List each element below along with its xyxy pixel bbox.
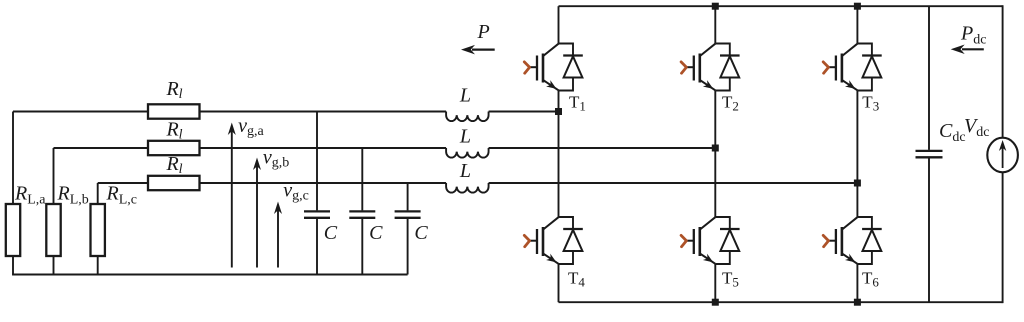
wire leg 3 upper xyxy=(856,6,858,43)
diode D5 xyxy=(715,217,739,264)
label T4 xyxy=(568,269,585,290)
label T6 xyxy=(862,269,879,290)
svg-text:RL,a: RL,a xyxy=(14,183,46,208)
junction bottom bus leg2 xyxy=(712,299,719,306)
svg-text:C: C xyxy=(324,222,338,244)
arrow P xyxy=(461,45,495,55)
svg-text:T6: T6 xyxy=(862,269,879,290)
voltage arrow vg,a xyxy=(228,123,236,268)
svg-text:C: C xyxy=(369,222,383,244)
capacitor C (phase c) xyxy=(395,183,421,275)
label Rl (phase c) xyxy=(165,153,182,177)
svg-text:C: C xyxy=(414,222,428,244)
junction top bus leg3 xyxy=(854,3,861,10)
resistor RL,c xyxy=(91,204,105,256)
svg-text:Rl: Rl xyxy=(165,153,182,177)
diode D4 xyxy=(559,217,583,264)
resistor Rl (phase b) xyxy=(148,141,200,155)
svg-text:Rl: Rl xyxy=(165,119,182,143)
label L (phase b) xyxy=(459,125,471,147)
label P xyxy=(477,21,490,43)
svg-text:P: P xyxy=(477,21,490,43)
diode D1 xyxy=(559,44,583,91)
wire L,a bottom stub xyxy=(12,256,14,275)
transistor T1 (IGBT) xyxy=(524,44,558,91)
transistor T4 (IGBT) xyxy=(524,217,558,264)
label vg,a xyxy=(238,115,264,139)
svg-text:T3: T3 xyxy=(862,93,879,114)
svg-text:T4: T4 xyxy=(568,269,585,290)
svg-text:Cdc: Cdc xyxy=(939,120,966,145)
diode D3 xyxy=(857,44,881,91)
wire top DC bus xyxy=(559,5,1003,7)
current source Vdc xyxy=(987,138,1018,173)
wire phase a xyxy=(13,111,559,113)
wire L,b bottom stub xyxy=(53,256,55,275)
capacitor Cdc xyxy=(916,6,943,302)
wire leg 3 middle xyxy=(856,91,858,218)
label RL,a xyxy=(14,183,46,208)
junction top bus leg2 xyxy=(712,3,719,10)
svg-text:Pdc: Pdc xyxy=(960,22,986,47)
transistor T2 (IGBT) xyxy=(681,44,715,91)
resistor Rl (phase a) xyxy=(148,104,200,118)
capacitor C (phase a) xyxy=(304,112,330,275)
resistor RL,b xyxy=(46,204,60,256)
junction leg1-phase a xyxy=(555,108,562,115)
svg-text:L: L xyxy=(459,125,471,147)
label T1 xyxy=(569,93,586,114)
wire L,c bottom stub xyxy=(97,256,99,275)
junction leg3-phase c xyxy=(854,180,861,187)
wire leg 2 upper xyxy=(714,6,716,43)
transistor T5 (IGBT) xyxy=(681,217,715,264)
label T3 xyxy=(862,93,879,114)
capacitor C (phase b) xyxy=(349,148,375,275)
label Cdc xyxy=(939,120,966,145)
transistor T6 (IGBT) xyxy=(823,217,857,264)
label vg,b xyxy=(263,147,289,171)
resistor Rl (phase c) xyxy=(148,176,200,190)
svg-text:vg,b: vg,b xyxy=(263,147,289,171)
label L (phase c) xyxy=(459,160,471,182)
svg-text:T2: T2 xyxy=(722,93,739,114)
arrow Pdc xyxy=(951,45,984,55)
wire phase c xyxy=(98,182,858,184)
wire phase b xyxy=(54,147,716,149)
wire leg 2 lower xyxy=(714,264,716,302)
wire leg 3 lower xyxy=(856,264,858,302)
label L (phase a) xyxy=(459,85,471,107)
wire leg 2 middle xyxy=(714,91,716,218)
voltage arrow vg,c xyxy=(274,202,282,268)
label Rl (phase a) xyxy=(165,78,182,102)
junction leg2-phase b xyxy=(712,145,719,152)
label Pdc xyxy=(960,22,986,47)
wire leg 1 upper xyxy=(558,6,560,43)
label vg,c xyxy=(283,180,309,204)
resistor RL,a xyxy=(6,204,20,256)
junction bottom bus leg3 xyxy=(854,299,861,306)
svg-text:L: L xyxy=(459,85,471,107)
svg-text:vg,a: vg,a xyxy=(238,115,264,139)
voltage arrow vg,b xyxy=(253,158,261,268)
wire L,c top stub xyxy=(97,183,99,204)
wire right bus lower xyxy=(1002,172,1004,303)
transistor T3 (IGBT) xyxy=(823,44,857,91)
label RL,b xyxy=(57,183,89,208)
svg-text:L: L xyxy=(459,160,471,182)
label C (phase c) xyxy=(414,222,428,244)
diode D6 xyxy=(857,217,881,264)
svg-text:RL,c: RL,c xyxy=(106,183,137,208)
label RL,c xyxy=(106,183,137,208)
wire leg 1 middle xyxy=(558,91,560,218)
svg-text:T5: T5 xyxy=(722,269,739,290)
label Vdc xyxy=(964,115,989,140)
svg-text:Vdc: Vdc xyxy=(964,115,989,140)
wire neutral bus xyxy=(12,274,408,276)
label T2 xyxy=(722,93,739,114)
label T5 xyxy=(722,269,739,290)
svg-text:T1: T1 xyxy=(569,93,586,114)
wire L,b top stub xyxy=(53,148,55,204)
diode D2 xyxy=(715,44,739,91)
inductor L (phase a) xyxy=(446,112,488,122)
wire leg 1 lower xyxy=(558,264,560,302)
label C (phase a) xyxy=(324,222,338,244)
wire L,a top stub xyxy=(12,112,14,205)
label C (phase b) xyxy=(369,222,383,244)
wire right bus upper xyxy=(1002,5,1004,138)
svg-text:RL,b: RL,b xyxy=(57,183,89,208)
inductor L (phase b) xyxy=(446,148,488,158)
label Rl (phase b) xyxy=(165,119,182,143)
svg-text:Rl: Rl xyxy=(165,78,182,102)
inductor L (phase c) xyxy=(446,183,488,193)
wire bottom DC bus xyxy=(559,301,1003,303)
